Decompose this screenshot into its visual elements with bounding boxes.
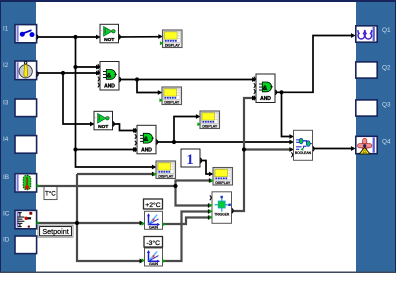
svg-text:BOOLEAN: BOOLEAN <box>295 151 312 155</box>
svg-text:DISPLAY: DISPLAY <box>165 43 181 47</box>
svg-text:DISPLAY: DISPLAY <box>164 100 180 104</box>
svg-text:AND: AND <box>141 148 152 154</box>
svg-text:-3°C: -3°C <box>146 239 160 247</box>
svg-text:IB: IB <box>3 174 9 181</box>
svg-text:1: 1 <box>186 152 193 168</box>
svg-text:I2: I2 <box>3 62 9 69</box>
svg-text:NOT: NOT <box>104 37 114 43</box>
svg-text:AND: AND <box>104 84 115 90</box>
svg-text:Q4: Q4 <box>382 139 391 146</box>
svg-text:DISPLAY: DISPLAY <box>215 181 231 185</box>
svg-text:&: & <box>107 72 112 79</box>
svg-text:GAIN: GAIN <box>149 225 159 229</box>
svg-text:+2°C: +2°C <box>145 201 160 209</box>
svg-text:Q3: Q3 <box>382 102 391 109</box>
svg-text:Q1: Q1 <box>382 27 391 34</box>
svg-text:I4: I4 <box>3 136 9 143</box>
svg-text:DISPLAY: DISPLAY <box>202 124 218 128</box>
svg-text:ID: ID <box>3 236 10 243</box>
svg-text:I3: I3 <box>3 99 9 106</box>
svg-text:Q2: Q2 <box>382 64 391 71</box>
svg-text:I1: I1 <box>3 25 9 32</box>
svg-text:Setpoint: Setpoint <box>42 227 68 236</box>
svg-text:DISPLAY: DISPLAY <box>158 174 174 178</box>
svg-text:GAIN: GAIN <box>149 262 159 266</box>
svg-text:TRIGGER: TRIGGER <box>214 212 230 216</box>
svg-text:&: & <box>144 136 149 143</box>
svg-text:NOT: NOT <box>98 124 108 130</box>
svg-text:&: & <box>263 85 268 92</box>
svg-text:IC: IC <box>3 210 10 217</box>
svg-text:T°C: T°C <box>45 190 56 197</box>
svg-text:AND: AND <box>260 96 271 102</box>
